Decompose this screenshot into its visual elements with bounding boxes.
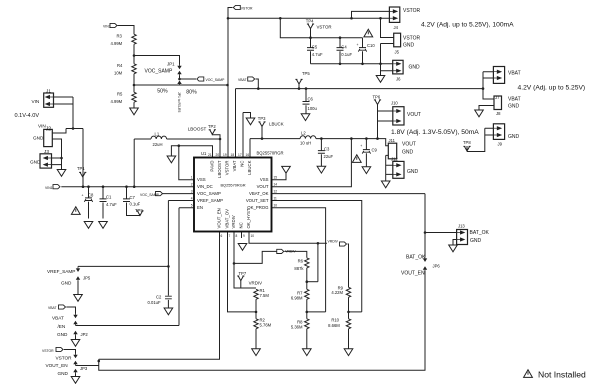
svg-text:1: 1 [191,176,193,180]
svg-text:J8: J8 [496,111,501,116]
svg-text:BQ25570RGR: BQ25570RGR [220,183,245,188]
svg-text:VOUT_EN: VOUT_EN [46,363,68,368]
svg-text:50%: 50% [157,88,168,94]
svg-text:VBAT: VBAT [52,316,64,321]
svg-text:J6: J6 [396,77,401,82]
svg-text:GND: GND [402,150,414,156]
svg-text:/EN: /EN [58,324,66,329]
svg-text:VBAT: VBAT [48,306,57,310]
svg-text:VREF_SAMP: VREF_SAMP [197,198,223,203]
svg-text:LBUCK: LBUCK [247,160,252,174]
svg-text:R3: R3 [117,34,123,39]
svg-text:VOC_SAMP: VOC_SAMP [145,69,173,75]
svg-text:VOUT: VOUT [407,112,421,118]
svg-text:C9: C9 [372,148,378,153]
svg-text:TP9: TP9 [135,208,143,213]
svg-text:TP1: TP1 [77,166,85,171]
svg-text:2: 2 [191,183,193,187]
svg-text:J13: J13 [458,223,465,228]
svg-text:LBUCK: LBUCK [269,122,284,127]
svg-text:GND: GND [30,160,41,165]
svg-text:GND: GND [407,169,419,175]
svg-text:C6: C6 [308,97,314,102]
svg-text:TP4: TP4 [306,18,314,23]
svg-text:0.1uF: 0.1uF [341,52,352,57]
svg-text:JP1 to R3-R5: JP1 to R3-R5 [177,92,181,112]
svg-text:21: 21 [208,153,212,157]
svg-text:10: 10 [251,234,255,238]
svg-text:JP2: JP2 [81,332,89,337]
svg-text:C1: C1 [106,195,112,200]
svg-text:GND: GND [58,371,69,376]
svg-text:11: 11 [274,196,278,200]
svg-text:4.99M: 4.99M [111,99,123,104]
svg-text:VSTOR: VSTOR [403,8,421,14]
svg-text:LBOOST: LBOOST [217,160,222,178]
svg-text:J4: J4 [394,25,399,30]
svg-text:4.2V (Adj. up to 5.25V), 100mA: 4.2V (Adj. up to 5.25V), 100mA [421,21,514,28]
svg-text:7.5M: 7.5M [260,293,270,298]
svg-text:GND: GND [508,134,520,140]
svg-text:100u: 100u [308,106,318,111]
svg-text:20: 20 [216,153,220,157]
svg-text:18: 18 [231,153,235,157]
svg-text:VSS: VSS [260,177,269,182]
svg-text:TP5: TP5 [302,71,310,76]
svg-text:1.8V (Adj. 1.3V-5.05V), 50mA: 1.8V (Adj. 1.3V-5.05V), 50mA [391,129,479,136]
svg-text:L2: L2 [301,131,306,136]
svg-text:22uH: 22uH [153,142,163,147]
svg-text:VOC_SAMP: VOC_SAMP [197,191,221,196]
svg-text:4.99M: 4.99M [111,41,123,46]
svg-text:BAT_OK: BAT_OK [406,254,426,260]
svg-text:L1: L1 [155,132,160,137]
svg-text:J5: J5 [395,50,400,55]
svg-text:NC: NC [239,222,244,228]
svg-text:VRDIV: VRDIV [285,249,296,253]
svg-text:VRDIV: VRDIV [231,215,236,228]
svg-text:GND: GND [508,104,520,110]
svg-text:10: 10 [274,204,278,208]
svg-text:VBAT_OV: VBAT_OV [225,209,230,229]
svg-text:J7: J7 [495,95,500,100]
svg-text:VOC_SAMP: VOC_SAMP [140,193,160,197]
svg-text:VSTOR: VSTOR [42,349,54,353]
svg-text:GND: GND [33,136,44,141]
svg-text:4.2V (Adj. up to 5.25V): 4.2V (Adj. up to 5.25V) [518,84,586,91]
svg-text:VBAT_OK: VBAT_OK [249,191,269,196]
svg-text:VIN: VIN [38,124,46,129]
svg-text:JP6: JP6 [433,264,441,269]
svg-text:R4: R4 [117,63,123,68]
svg-text:22uF: 22uF [324,154,334,159]
svg-text:887k: 887k [294,266,304,271]
svg-text:17: 17 [238,153,242,157]
svg-text:BQ25570RGR: BQ25570RGR [257,151,284,156]
svg-text:Not Installed: Not Installed [538,370,586,380]
svg-text:GND: GND [409,65,421,71]
svg-text:VSS: VSS [197,177,206,182]
svg-text:VSTOR: VSTOR [241,6,253,10]
svg-text:TP2: TP2 [208,124,216,129]
svg-text:C5: C5 [312,44,318,49]
svg-text:TP8: TP8 [463,140,471,145]
svg-text:GND: GND [470,238,482,244]
svg-text:8.66M: 8.66M [328,323,340,328]
svg-text:12: 12 [274,189,278,193]
svg-text:10M: 10M [114,71,123,76]
svg-text:VSTOR: VSTOR [403,36,421,42]
svg-text:C10: C10 [367,43,375,48]
svg-text:3: 3 [191,189,193,193]
svg-text:15: 15 [274,176,278,180]
svg-text:VOUT_EN: VOUT_EN [217,208,222,228]
svg-text:0.01uF: 0.01uF [148,300,161,305]
svg-text:J3: J3 [44,149,49,154]
svg-text:VSTOR: VSTOR [317,24,332,29]
svg-text:VBAT: VBAT [238,78,247,82]
svg-text:9: 9 [243,234,245,238]
svg-text:5.36M: 5.36M [291,324,303,329]
svg-text:C8: C8 [88,193,94,198]
svg-text:VOUT: VOUT [257,184,269,189]
svg-text:VSTOR: VSTOR [225,161,230,176]
svg-text:J12: J12 [391,157,398,162]
svg-text:80%: 80% [186,89,197,95]
svg-text:J9: J9 [498,142,503,147]
svg-text:VBAT: VBAT [508,97,521,103]
svg-text:C7: C7 [130,195,136,200]
svg-text:NC: NC [240,161,245,167]
svg-text:+: + [357,43,359,47]
svg-text:14: 14 [274,183,278,187]
svg-text:6.98M: 6.98M [291,296,303,301]
svg-text:4.7uF: 4.7uF [106,202,117,207]
svg-text:VOC_SAMP: VOC_SAMP [206,78,226,82]
svg-text:5.76M: 5.76M [260,322,272,327]
svg-text:7: 7 [229,234,231,238]
svg-text:J2: J2 [46,126,52,132]
svg-text:J10: J10 [391,101,398,106]
svg-text:VIN_DC: VIN_DC [197,184,213,189]
svg-text:0.1V-4.0V: 0.1V-4.0V [15,113,40,119]
svg-text:U1: U1 [201,151,207,156]
svg-text:VOUT_SET: VOUT_SET [246,198,269,203]
svg-text:GND: GND [61,281,72,286]
svg-text:VREF_SAMP: VREF_SAMP [47,269,75,274]
svg-text:J11: J11 [389,138,396,143]
svg-text:10 uH: 10 uH [300,141,311,146]
svg-text:4.22M: 4.22M [331,290,343,295]
svg-text:R10: R10 [331,317,339,322]
svg-text:JP3: JP3 [80,366,88,371]
svg-text:VRDIV: VRDIV [249,280,262,285]
svg-text:16: 16 [246,153,250,157]
svg-text:0.1uF: 0.1uF [130,201,141,206]
svg-text:8: 8 [236,234,238,238]
svg-text:TP7: TP7 [239,271,247,276]
svg-text:VBAT: VBAT [232,160,237,171]
svg-text:GND: GND [57,332,68,337]
svg-text:+: + [360,144,362,148]
svg-text:VRDIV: VRDIV [328,240,339,244]
svg-text:LBOOST: LBOOST [188,126,207,131]
svg-text:4.7uF: 4.7uF [312,52,323,57]
svg-text:VIN: VIN [32,99,40,104]
svg-text:VIN1: VIN1 [103,25,111,29]
svg-text:5: 5 [191,204,193,208]
svg-text:+: + [82,193,84,197]
svg-text:VOUT: VOUT [402,142,416,148]
svg-text:TP3: TP3 [258,116,266,121]
svg-text:GND: GND [403,43,415,49]
svg-text:C4: C4 [341,44,347,49]
svg-text:JP5: JP5 [83,276,91,281]
svg-text:C2: C2 [156,295,162,300]
svg-text:R6: R6 [298,259,304,264]
svg-text:VOUT_EN: VOUT_EN [401,271,425,277]
svg-text:OK_HYST: OK_HYST [246,208,251,228]
svg-text:EN: EN [197,205,203,210]
svg-text:R5: R5 [117,92,123,97]
svg-text:VIN1: VIN1 [45,186,53,190]
svg-text:6: 6 [221,234,223,238]
svg-text:VBAT: VBAT [508,71,521,77]
svg-text:J1: J1 [46,89,51,94]
svg-text:BAT_OK: BAT_OK [470,230,490,236]
svg-text:4: 4 [191,196,193,200]
svg-text:PAVD: PAVD [210,161,215,172]
svg-text:VSTOR: VSTOR [56,356,73,361]
svg-text:C3: C3 [324,147,330,152]
svg-text:TP6: TP6 [373,95,381,100]
svg-text:19: 19 [223,153,227,157]
svg-text:JP1: JP1 [167,62,175,67]
